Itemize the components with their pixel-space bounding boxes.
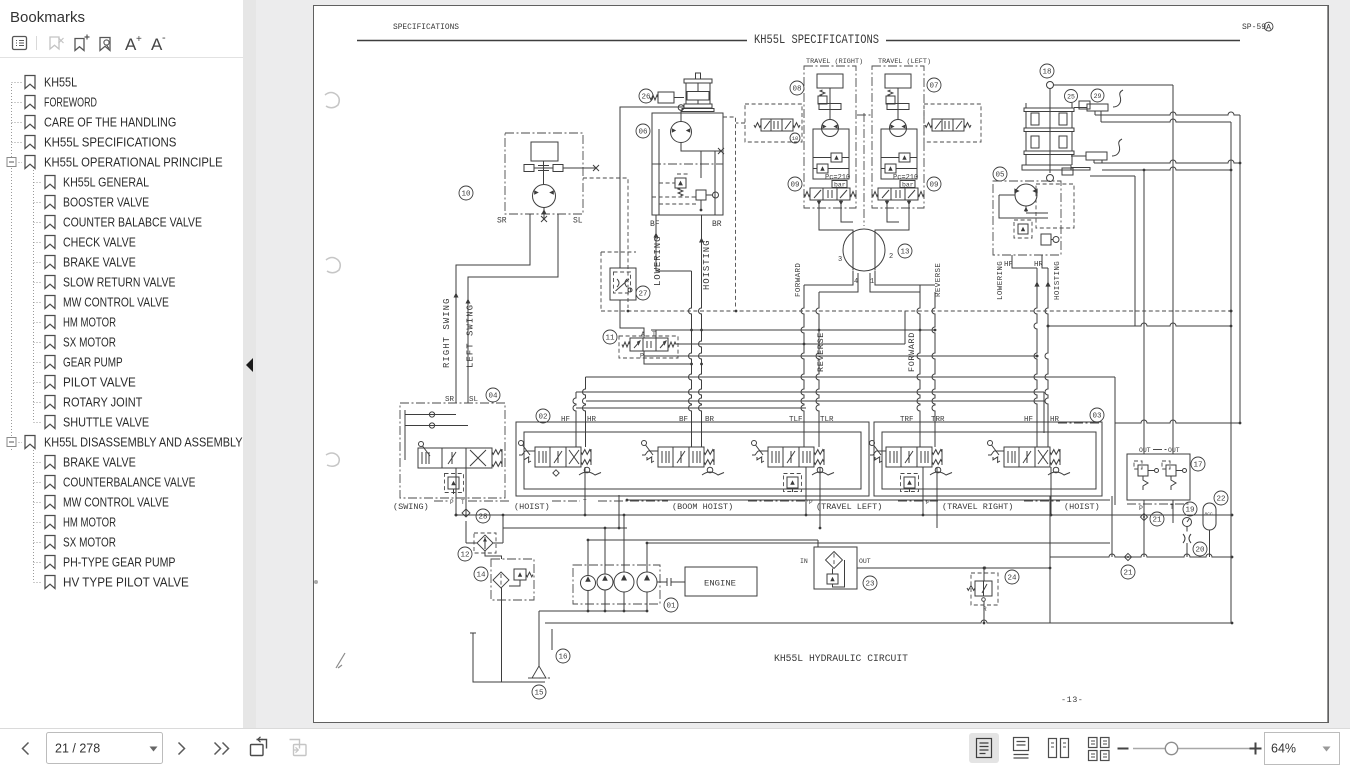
svg-text:SL: SL xyxy=(573,217,583,226)
slow return valve symbol xyxy=(616,279,633,292)
hoist unit mid dash-dot xyxy=(652,163,723,165)
travel unit left directional valve xyxy=(878,188,918,200)
svg-text:SR: SR xyxy=(445,396,455,404)
slow return valve 27 box xyxy=(610,268,636,300)
wire PTO to slow return valve xyxy=(620,107,683,268)
callout 02 xyxy=(536,409,550,423)
travel unit right brake cylinder xyxy=(817,74,843,88)
callout 01 xyxy=(664,598,678,612)
wire cylinder lower ports xyxy=(1094,160,1102,163)
svg-text:14: 14 xyxy=(476,572,486,580)
wire hoist2 HR down xyxy=(1042,255,1048,268)
travel pilot valve right box xyxy=(924,104,981,142)
control valve bank right box xyxy=(874,422,1102,496)
hoist brake valve xyxy=(696,190,706,200)
travel pilot valve left xyxy=(761,119,793,131)
filter 14 relief xyxy=(514,569,526,580)
filter 14 box xyxy=(491,559,534,600)
pressure gauge xyxy=(1183,518,1192,527)
band brake hook upper xyxy=(1113,90,1123,107)
callout 21a xyxy=(1150,512,1164,526)
bank valve hoist front lever xyxy=(519,441,524,446)
travel unit right box xyxy=(804,66,856,208)
callout 06 xyxy=(636,124,650,138)
swing valve lever xyxy=(419,442,424,447)
svg-text:KH55L DISASSEMBLY AND ASSEMBLY: KH55L DISASSEMBLY AND ASSEMBLY xyxy=(44,435,243,450)
wire valve 11 output right xyxy=(676,343,905,345)
svg-text:KH55L HYDRAULIC CIRCUIT: KH55L HYDRAULIC CIRCUIT xyxy=(774,654,908,665)
hoist motor 05 box xyxy=(993,181,1061,255)
svg-text:HF: HF xyxy=(561,416,570,424)
travel unit left brake spring valve xyxy=(886,96,909,110)
bank check hoist xyxy=(553,470,559,476)
svg-text:04: 04 xyxy=(488,393,498,401)
winch drum flanges xyxy=(1022,103,1074,170)
svg-text:27: 27 xyxy=(638,291,647,299)
svg-text:HM MOTOR: HM MOTOR xyxy=(63,515,116,530)
dashed pilot bus xyxy=(601,310,1231,312)
drum clutch blocks xyxy=(1031,101,1090,175)
pilot link dash left xyxy=(736,122,745,124)
wire travel right pair down xyxy=(917,285,920,447)
svg-text:TRF: TRF xyxy=(900,416,914,424)
svg-text:25: 25 xyxy=(1067,93,1075,100)
hoist motor shuttle line xyxy=(681,143,724,155)
oil cooler filter 23 box xyxy=(814,547,857,589)
svg-text:19: 19 xyxy=(1185,507,1194,515)
svg-text:bar: bar xyxy=(834,182,846,189)
filter 23 diamond xyxy=(826,552,843,569)
travel unit right motor xyxy=(822,120,839,137)
bank valve travel right follower xyxy=(935,467,941,473)
bank valve hoist rear spring xyxy=(1050,450,1060,455)
svg-text:BRAKE VALVE: BRAKE VALVE xyxy=(63,255,136,270)
svg-text:08: 08 xyxy=(792,86,801,94)
wire valve 11 P port xyxy=(644,351,692,364)
bus line C xyxy=(576,391,1044,393)
hoist motor link bus xyxy=(1048,323,1231,326)
filter 12 diamond xyxy=(477,535,493,551)
swing valve body xyxy=(418,448,492,468)
svg-text:(BOOM HOIST): (BOOM HOIST) xyxy=(672,502,733,512)
solenoid valve 11 dashed box xyxy=(619,336,678,358)
svg-text:22: 22 xyxy=(1216,496,1225,504)
svg-text:KH55L: KH55L xyxy=(44,75,77,90)
svg-text:SP-59: SP-59 xyxy=(1242,23,1266,32)
bank valve travel right lever xyxy=(870,441,875,446)
svg-text:(SWING): (SWING) xyxy=(393,502,429,512)
svg-text:HOISTING: HOISTING xyxy=(702,240,712,290)
svg-text:11: 11 xyxy=(605,335,615,343)
svg-text:CARE OF THE HANDLING: CARE OF THE HANDLING xyxy=(44,115,176,130)
hoist unit inner piping xyxy=(659,129,715,215)
swing pump drain xyxy=(541,208,547,223)
svg-text:20: 20 xyxy=(1195,547,1205,555)
svg-text:13: 13 xyxy=(900,249,910,257)
callout 16 xyxy=(556,649,570,663)
svg-text:16: 16 xyxy=(558,654,568,662)
swing valve box xyxy=(400,403,505,498)
bank valve travel left spring xyxy=(814,450,824,455)
callout 29 xyxy=(1091,89,1104,102)
callout 03 xyxy=(1090,408,1104,422)
svg-text:HF: HF xyxy=(1024,416,1033,424)
svg-text:ROTARY JOINT: ROTARY JOINT xyxy=(63,395,142,410)
svg-text:T: T xyxy=(461,499,465,506)
svg-text:29: 29 xyxy=(1094,93,1102,100)
callout 21b xyxy=(1121,565,1135,579)
callout 17 xyxy=(1191,457,1205,471)
travel unit left counterbalance valves xyxy=(881,153,917,173)
svg-text:LEFT SWING: LEFT SWING xyxy=(466,304,476,368)
pilot bus junction wire xyxy=(651,329,935,331)
band brake cylinder upper xyxy=(1087,104,1108,111)
svg-text:KH55L OPERATIONAL PRINCIPLE: KH55L OPERATIONAL PRINCIPLE xyxy=(44,155,223,170)
relief block 17 valves xyxy=(1138,465,1187,490)
bank valve hoist front follower xyxy=(584,467,590,473)
wire hoist2 HF down xyxy=(1012,255,1037,268)
air breather symbol xyxy=(1047,82,1054,89)
travel unit right counterbalance valves xyxy=(813,153,849,173)
solenoid valve 11 body xyxy=(630,338,668,351)
svg-text:TRR: TRR xyxy=(931,416,945,424)
bank valve hoist front xyxy=(535,447,581,467)
pump 1 xyxy=(581,576,596,591)
callout 10 xyxy=(459,186,473,200)
callout 18 xyxy=(1040,64,1054,78)
svg-text:1: 1 xyxy=(870,278,874,286)
svg-text:HR: HR xyxy=(1050,416,1060,424)
callout 26 xyxy=(639,89,653,103)
callout 13 xyxy=(898,244,912,258)
right block frame lines xyxy=(1134,176,1136,326)
wire swing P down xyxy=(455,468,457,515)
check junction 21a xyxy=(1140,513,1147,520)
bank valve hoist rear xyxy=(1004,447,1050,467)
svg-text:SPECIFICATIONS: SPECIFICATIONS xyxy=(393,23,459,32)
travel unit right bar label xyxy=(832,181,847,188)
bus line D xyxy=(586,400,1044,402)
callout 09 left xyxy=(788,177,802,191)
svg-text:REVERSE: REVERSE xyxy=(935,263,943,297)
pump shaft coupling xyxy=(657,578,685,586)
svg-text:KH55L SPECIFICATIONS: KH55L SPECIFICATIONS xyxy=(754,32,879,47)
tank outline xyxy=(470,633,545,682)
travel unit right inner box xyxy=(813,129,849,179)
hoist motor 05 coupling xyxy=(1047,175,1054,182)
pilot feed bus xyxy=(588,539,818,541)
svg-text:01: 01 xyxy=(666,603,676,611)
hoist relief valve xyxy=(675,178,686,188)
bank valve hoist rear follower xyxy=(1053,467,1059,473)
svg-text:-: - xyxy=(162,32,166,44)
swing motor body xyxy=(531,142,558,161)
svg-text:TLR: TLR xyxy=(820,416,834,424)
svg-text:PH-TYPE GEAR PUMP: PH-TYPE GEAR PUMP xyxy=(63,555,176,570)
svg-text:17: 17 xyxy=(1193,462,1202,470)
bank valve hoist front spring xyxy=(581,450,591,455)
svg-text:06: 06 xyxy=(638,129,648,137)
rotary joint 13 xyxy=(843,229,885,271)
svg-text:bar: bar xyxy=(902,182,914,189)
svg-text:GEAR PUMP: GEAR PUMP xyxy=(63,355,123,370)
svg-text:MW CONTROL VALVE: MW CONTROL VALVE xyxy=(63,295,169,310)
svg-text:10: 10 xyxy=(792,135,799,142)
engine box xyxy=(685,567,757,596)
callout 19 xyxy=(1183,502,1197,516)
svg-text:RIGHT SWING: RIGHT SWING xyxy=(442,298,452,368)
scan page right edge xyxy=(1327,6,1329,722)
svg-text:FOREWORD: FOREWORD xyxy=(44,95,97,110)
pump 2 xyxy=(597,574,613,590)
wire valve 24 xyxy=(983,568,985,623)
filter 14 diamond xyxy=(493,572,509,588)
svg-text:18: 18 xyxy=(1042,69,1051,77)
pulley tension actuator xyxy=(658,92,684,103)
bank valve travel right xyxy=(886,447,932,467)
wire valve 11 T port xyxy=(655,330,657,338)
wire swing drain xyxy=(465,542,467,544)
swing motor unit box xyxy=(505,133,583,214)
svg-text:15: 15 xyxy=(534,690,544,698)
travel unit right tank stubs xyxy=(819,200,841,202)
wire SR to swing valve xyxy=(456,214,530,403)
travel unit left tank stubs xyxy=(887,200,909,202)
travel unit right brake spring valve xyxy=(818,96,841,110)
hoist motor unit box xyxy=(652,113,723,215)
swing pilot dashed line xyxy=(583,178,628,308)
svg-text:KH55L GENERAL: KH55L GENERAL xyxy=(63,175,149,190)
return bus xyxy=(503,527,627,529)
svg-text:KH55L SPECIFICATIONS: KH55L SPECIFICATIONS xyxy=(44,135,177,150)
svg-text:SX MOTOR: SX MOTOR xyxy=(63,335,116,350)
pilot return line xyxy=(1050,554,1232,557)
svg-text:3: 3 xyxy=(838,256,842,264)
main return line xyxy=(545,620,1232,623)
pump suction drops xyxy=(588,590,647,611)
svg-text:HR: HR xyxy=(587,416,597,424)
svg-text:FORWARD: FORWARD xyxy=(907,332,917,372)
svg-text:21 / 278: 21 / 278 xyxy=(55,742,100,756)
accumulator xyxy=(1203,503,1216,530)
callout 28 xyxy=(476,509,490,523)
callout 10 small xyxy=(790,133,800,143)
filter 12 dashed box xyxy=(474,533,496,553)
bus line E xyxy=(576,407,806,409)
svg-text:CHECK VALVE: CHECK VALVE xyxy=(63,235,136,250)
svg-text:2: 2 xyxy=(889,253,893,261)
bank section dash-dot right xyxy=(1058,422,1102,424)
swing valve relief xyxy=(448,477,459,489)
page code SP-59A xyxy=(1242,22,1273,32)
svg-text:23: 23 xyxy=(865,581,875,589)
bank valve travel left follower xyxy=(817,467,823,473)
svg-text:07: 07 xyxy=(929,83,938,91)
check valve 28 xyxy=(462,509,470,517)
valve 24 body xyxy=(975,581,992,596)
callout 11 xyxy=(603,330,617,344)
right block verticals xyxy=(1050,496,1112,623)
hoist motor 05 circle xyxy=(1015,184,1037,206)
suction downpipe xyxy=(539,611,552,666)
wire hoist BF down xyxy=(656,215,692,271)
label LEFT SWING xyxy=(466,299,471,304)
callout 24 xyxy=(1005,570,1019,584)
callout 07 xyxy=(927,78,941,92)
pump 3 xyxy=(614,572,634,592)
callout 27 xyxy=(636,286,650,300)
bank valve boom hoist follower xyxy=(707,467,713,473)
svg-text:21: 21 xyxy=(1123,570,1133,578)
bank valve travel right spring xyxy=(932,450,942,455)
bank relief travel-left xyxy=(787,477,798,488)
svg-text:SLOW RETURN VALVE: SLOW RETURN VALVE xyxy=(63,275,176,290)
svg-text:OUT: OUT xyxy=(859,558,871,565)
bank relief travel-right xyxy=(904,477,915,488)
strainer 15 xyxy=(532,666,546,678)
svg-text:P: P xyxy=(640,353,644,360)
bank valve boom hoist lever xyxy=(642,441,647,446)
svg-text:24: 24 xyxy=(1007,575,1017,583)
title rule left xyxy=(357,40,747,42)
svg-text:LOWERING: LOWERING xyxy=(997,261,1005,300)
wire right bus to relief block xyxy=(1115,420,1240,423)
pilot feed bus 2 xyxy=(647,542,1110,544)
wire filter 14 to tank xyxy=(485,551,502,682)
svg-text:-13-: -13- xyxy=(1061,695,1083,705)
svg-text:MW CONTROL VALVE: MW CONTROL VALVE xyxy=(63,495,169,510)
valve 27 dashed enclosure xyxy=(601,252,636,311)
travel pilot valve right xyxy=(932,119,964,131)
relief block 17 box xyxy=(1127,454,1190,500)
svg-text:09: 09 xyxy=(790,182,799,190)
wire filter 12 xyxy=(466,542,503,544)
svg-text:HOISTING: HOISTING xyxy=(1054,261,1062,300)
bank valve travel left xyxy=(768,447,814,467)
svg-text:COUNTERBALANCE VALVE: COUNTERBALANCE VALVE xyxy=(63,475,196,490)
svg-text:ENGINE: ENGINE xyxy=(704,580,736,589)
svg-text:Acc: Acc xyxy=(1205,511,1214,517)
pressure bus upper xyxy=(627,499,1110,501)
swing brake release line with plug xyxy=(563,165,599,171)
svg-text:03: 03 xyxy=(1092,413,1102,421)
hoist motor 05 relief xyxy=(1018,224,1028,234)
callout 22 xyxy=(1214,491,1228,505)
travel unit left brake cylinder xyxy=(885,74,911,88)
travel unit left box xyxy=(872,66,924,208)
callout 15 xyxy=(532,685,546,699)
svg-text:SR: SR xyxy=(497,217,507,226)
suction manifold xyxy=(539,610,648,612)
bank bottom dash-dot xyxy=(434,500,1060,502)
label LOWERING xyxy=(654,233,659,238)
brake lever link xyxy=(1071,168,1135,177)
accessory wires xyxy=(1187,527,1210,558)
PTO pulley stack xyxy=(682,73,714,112)
valve 24 dashed box xyxy=(971,573,998,605)
label RIGHT SWING xyxy=(454,293,459,298)
svg-text:BOOSTER VALVE: BOOSTER VALVE xyxy=(63,195,149,210)
swing valve check lines xyxy=(405,410,468,460)
bank valve hoist rear lever xyxy=(988,441,993,446)
wires travel valves to rotary joint xyxy=(819,202,909,230)
svg-text:26: 26 xyxy=(641,94,651,102)
svg-text:21: 21 xyxy=(1152,517,1162,525)
travel center dash-dot axis xyxy=(857,113,871,226)
svg-text:BRAKE VALVE: BRAKE VALVE xyxy=(63,455,136,470)
svg-text:A: A xyxy=(641,331,645,338)
svg-text:02: 02 xyxy=(538,414,547,422)
svg-text:05: 05 xyxy=(995,172,1005,180)
swing hydraulic pump circle xyxy=(533,185,556,208)
callout 09 right xyxy=(927,177,941,191)
callout 14 xyxy=(474,567,488,581)
svg-text:T: T xyxy=(652,331,656,338)
svg-text:COUNTER BALABCE VALVE: COUNTER BALABCE VALVE xyxy=(63,215,202,230)
scan margin artifacts xyxy=(314,93,345,669)
band brake cylinder lower xyxy=(1086,152,1107,160)
svg-text:+: + xyxy=(136,34,142,45)
wire relief block ports down xyxy=(1144,500,1173,557)
svg-text:BR: BR xyxy=(705,416,715,424)
label HOISTING xyxy=(699,238,704,243)
pump group box xyxy=(573,565,660,604)
control valve bank left box xyxy=(516,422,869,496)
svg-text:(TRAVEL RIGHT): (TRAVEL RIGHT) xyxy=(942,502,1013,512)
bank valve boom hoist xyxy=(658,447,704,467)
svg-text:(HOIST): (HOIST) xyxy=(514,502,550,512)
svg-text:PILOT VALVE: PILOT VALVE xyxy=(63,375,136,390)
wire cylinder upper ports xyxy=(1095,111,1101,122)
bank valve travel left lever xyxy=(752,441,757,446)
svg-text:12: 12 xyxy=(460,552,469,560)
callout 05 xyxy=(993,167,1007,181)
travel pilot valve left box xyxy=(745,104,802,142)
hoist motor 05 dashed box xyxy=(1036,184,1074,228)
travel unit left inner box xyxy=(881,129,917,179)
svg-text:(HOIST): (HOIST) xyxy=(1064,502,1100,512)
pump risers xyxy=(588,515,647,576)
callout 25 xyxy=(1065,90,1078,103)
check junction 21b xyxy=(1124,553,1131,560)
travel unit right directional valve xyxy=(810,188,850,200)
swing brake shoes xyxy=(524,161,563,184)
svg-text:TRAVEL (RIGHT): TRAVEL (RIGHT) xyxy=(806,58,863,66)
wire filter 23 out xyxy=(857,567,1050,569)
svg-text:09: 09 xyxy=(929,182,938,190)
svg-text:LOWERING: LOWERING xyxy=(653,236,663,286)
travel unit left motor xyxy=(890,120,907,137)
throttle symbol xyxy=(1183,534,1191,543)
svg-text:HM MOTOR: HM MOTOR xyxy=(63,315,116,330)
hoist motor 05 brake valve xyxy=(1041,234,1051,245)
callout 12 xyxy=(458,547,472,561)
hoist motor 05 piping xyxy=(999,195,1048,218)
callout 08 xyxy=(790,81,804,95)
svg-text:(TRAVEL LEFT): (TRAVEL LEFT) xyxy=(816,502,882,512)
svg-text:10: 10 xyxy=(461,191,471,199)
svg-text:SL: SL xyxy=(469,396,479,404)
hoist motor dashed pilot edge xyxy=(723,117,736,308)
svg-text:BR: BR xyxy=(712,220,722,229)
hoist motor circle xyxy=(671,122,692,143)
svg-text:OUT: OUT xyxy=(1168,447,1180,454)
winch drum shaft xyxy=(1049,89,1051,174)
bank tank drops xyxy=(585,467,1051,528)
svg-text:64%: 64% xyxy=(1271,742,1296,756)
pressure bus main xyxy=(456,514,1232,516)
svg-text:P: P xyxy=(1139,505,1143,512)
